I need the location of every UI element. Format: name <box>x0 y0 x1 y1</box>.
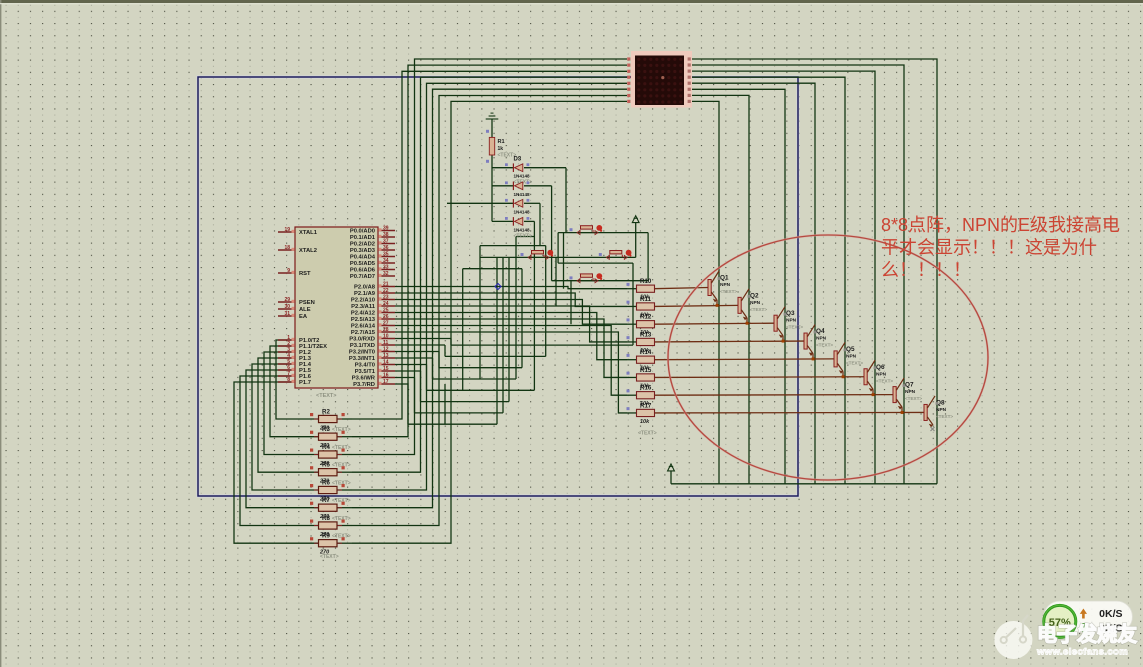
resistor R16 <box>627 385 656 408</box>
push button K3 <box>606 250 631 260</box>
svg-text:<TEXT>: <TEXT> <box>332 463 351 469</box>
svg-text:<TEXT>: <TEXT> <box>316 393 336 399</box>
wire <box>746 318 748 323</box>
resistor R14 <box>627 349 656 372</box>
svg-text:P0.4/AD4: P0.4/AD4 <box>350 255 376 261</box>
svg-text:0K/S: 0K/S <box>1099 608 1122 620</box>
svg-text:35: 35 <box>383 251 389 257</box>
svg-text:<TEXT>: <TEXT> <box>905 396 922 401</box>
svg-text:P2.4/A12: P2.4/A12 <box>351 311 375 317</box>
wire <box>627 305 636 307</box>
svg-text:R10: R10 <box>640 278 652 285</box>
resistor R12 <box>627 314 656 337</box>
svg-text:P2.3/A11: P2.3/A11 <box>351 304 376 310</box>
wire <box>352 83 627 490</box>
wire <box>692 71 875 484</box>
resistor R15 <box>627 367 656 390</box>
svg-text:R13: R13 <box>640 331 652 338</box>
svg-text:NPN: NPN <box>905 389 916 395</box>
wire <box>421 401 510 403</box>
svg-text:Q4: Q4 <box>816 328 825 335</box>
node <box>931 427 935 431</box>
wire <box>654 340 804 343</box>
svg-text:P3.6/WR: P3.6/WR <box>352 376 376 382</box>
watermark and net speed widget <box>994 615 1032 659</box>
svg-text:XTAL1: XTAL1 <box>299 230 318 236</box>
svg-text:11: 11 <box>383 340 389 346</box>
svg-text:8*8点阵，NPN的E级我接高电: 8*8点阵，NPN的E级我接高电 <box>881 215 1120 235</box>
svg-text:32: 32 <box>383 271 389 277</box>
svg-text:P1.7: P1.7 <box>299 380 311 386</box>
wire <box>521 269 523 368</box>
wire <box>300 507 319 509</box>
wire <box>551 186 553 281</box>
wire <box>558 262 633 264</box>
svg-text:R15: R15 <box>640 367 652 374</box>
wire <box>782 336 784 341</box>
svg-text:PSEN: PSEN <box>299 300 315 306</box>
wire <box>407 384 409 424</box>
wire <box>627 412 636 414</box>
svg-text:R3: R3 <box>322 426 330 433</box>
diode D5 1N4148 <box>505 199 530 214</box>
resistor R4 <box>310 444 351 467</box>
wire <box>524 202 540 204</box>
wire <box>395 293 627 306</box>
wire <box>352 101 627 543</box>
transistor Q3 NPN <box>774 307 803 343</box>
svg-text:Q3: Q3 <box>786 310 795 317</box>
wire <box>563 233 565 289</box>
LED matrix 8x8 display <box>627 51 692 108</box>
wire <box>872 389 874 394</box>
wire <box>337 471 352 473</box>
wire <box>427 389 535 391</box>
svg-text:P0.7/AD7: P0.7/AD7 <box>350 274 375 280</box>
wire <box>337 507 352 509</box>
svg-text:R5: R5 <box>322 462 330 469</box>
svg-text:14: 14 <box>383 359 389 365</box>
wire <box>515 237 517 380</box>
svg-text:<TEXT>: <TEXT> <box>320 554 339 560</box>
svg-text:<TEXT>: <TEXT> <box>846 360 863 365</box>
wire <box>570 281 572 325</box>
wire <box>558 232 648 234</box>
transistor Q7 NPN <box>893 378 922 414</box>
wire <box>300 542 319 544</box>
svg-text:1N4148: 1N4148 <box>514 192 531 197</box>
wire <box>491 119 493 137</box>
node <box>570 276 573 279</box>
svg-text:P3.4/T0: P3.4/T0 <box>355 363 375 369</box>
svg-text:P3.1/TXD: P3.1/TXD <box>350 343 375 349</box>
svg-text:10k: 10k <box>640 419 650 425</box>
svg-text:<TEXT>: <TEXT> <box>750 307 767 312</box>
svg-text:<TEXT>: <TEXT> <box>786 325 803 330</box>
resistor R3 <box>310 426 351 449</box>
svg-text:Q7: Q7 <box>905 382 914 389</box>
svg-text:R17: R17 <box>640 402 652 409</box>
wire <box>492 220 513 222</box>
svg-text:1N4148: 1N4148 <box>514 227 531 232</box>
annotation red ellipse and note <box>668 235 988 480</box>
wire <box>337 436 352 438</box>
wire <box>352 89 627 508</box>
resistor R9 <box>310 533 351 560</box>
svg-text:<TEXT>: <TEXT> <box>332 534 351 540</box>
transistor Q5 NPN <box>834 342 863 378</box>
wire <box>565 168 567 233</box>
svg-text:R12: R12 <box>640 314 652 321</box>
wire <box>627 394 636 396</box>
svg-text:27: 27 <box>383 320 389 326</box>
wire <box>502 257 504 413</box>
svg-text:R14: R14 <box>640 349 652 356</box>
svg-text:39: 39 <box>383 225 389 231</box>
wire <box>539 203 541 245</box>
svg-text:<TEXT>: <TEXT> <box>332 445 351 451</box>
svg-text:NPN: NPN <box>936 407 947 413</box>
wire <box>246 370 300 508</box>
node <box>570 228 573 231</box>
svg-text:RST: RST <box>299 271 311 277</box>
svg-text:24: 24 <box>383 301 389 307</box>
svg-text:22: 22 <box>383 288 389 294</box>
svg-text:P3.3/INT1: P3.3/INT1 <box>349 356 376 362</box>
wire <box>524 185 552 187</box>
resistor R2 <box>310 409 345 432</box>
svg-text:19: 19 <box>284 227 290 233</box>
wire <box>420 371 422 402</box>
wire <box>395 344 445 346</box>
wire <box>352 77 627 472</box>
wire <box>337 489 352 491</box>
svg-text:NPN: NPN <box>846 353 857 359</box>
svg-text:Q1: Q1 <box>720 275 729 282</box>
wire <box>276 340 300 419</box>
wire <box>337 542 352 544</box>
wire <box>492 185 513 187</box>
wire <box>463 268 522 270</box>
svg-text:<TEXT>: <TEXT> <box>332 481 351 487</box>
transistor Q6 NPN <box>864 360 893 396</box>
wire <box>258 358 300 472</box>
svg-text:P2.6/A14: P2.6/A14 <box>351 324 376 330</box>
svg-text:P2.7/A15: P2.7/A15 <box>351 330 376 336</box>
wire <box>438 352 440 368</box>
svg-text:13: 13 <box>383 353 389 359</box>
wire <box>414 378 416 413</box>
svg-text:Q6: Q6 <box>876 364 885 371</box>
wire <box>692 95 749 483</box>
wire <box>479 246 481 379</box>
wire <box>300 471 319 473</box>
wire <box>352 96 627 526</box>
resistor R11 <box>627 296 656 319</box>
svg-text:37: 37 <box>383 238 389 244</box>
wire <box>395 357 433 359</box>
wire <box>627 341 636 343</box>
wire <box>300 436 319 438</box>
svg-text:P0.1/AD1: P0.1/AD1 <box>350 235 376 241</box>
svg-text:17: 17 <box>383 379 389 385</box>
wire <box>444 345 446 356</box>
svg-text:Q2: Q2 <box>750 292 759 299</box>
wire <box>395 351 439 353</box>
wire <box>395 287 627 289</box>
svg-text:<TEXT>: <TEXT> <box>816 343 833 348</box>
wire <box>462 269 464 391</box>
svg-text:R9: R9 <box>322 533 330 540</box>
wire <box>337 454 352 456</box>
wire <box>395 319 627 377</box>
wire <box>439 367 522 369</box>
wire <box>692 101 719 483</box>
svg-text:<TEXT>: <TEXT> <box>720 289 737 294</box>
svg-text:P3.5/T1: P3.5/T1 <box>355 369 376 375</box>
svg-text:1N4148: 1N4148 <box>514 174 531 179</box>
svg-text:R1: R1 <box>498 139 505 145</box>
resistor R10 <box>627 278 656 301</box>
resistor R8 <box>310 515 351 538</box>
wire <box>395 300 627 325</box>
svg-text:23: 23 <box>383 294 389 300</box>
wire <box>491 155 493 221</box>
svg-text:P0.6/AD6: P0.6/AD6 <box>350 268 376 274</box>
svg-text:<TEXT>: <TEXT> <box>936 414 953 419</box>
svg-text:30: 30 <box>284 304 290 310</box>
wire <box>352 65 627 437</box>
wire <box>692 89 785 484</box>
diode D6 1N4148 <box>505 217 532 239</box>
wire <box>654 394 893 397</box>
svg-text:<TEXT>: <TEXT> <box>332 498 351 504</box>
svg-text:www.elecfans.com: www.elecfans.com <box>1036 647 1128 658</box>
svg-text:<TEXT>: <TEXT> <box>332 427 351 433</box>
svg-text:NPN: NPN <box>750 300 761 306</box>
svg-text:P3.2/INT0: P3.2/INT0 <box>349 350 375 356</box>
wire <box>300 454 319 456</box>
wire <box>240 376 300 526</box>
svg-text:XTAL2: XTAL2 <box>299 248 317 254</box>
wire <box>480 245 546 247</box>
node <box>495 284 501 290</box>
wire <box>627 288 636 290</box>
wire <box>552 280 649 282</box>
wire <box>533 221 535 390</box>
svg-text:21: 21 <box>383 281 389 287</box>
wire <box>395 383 408 385</box>
wire <box>337 525 352 527</box>
wire <box>654 288 708 289</box>
svg-text:R6: R6 <box>322 480 330 487</box>
wire <box>432 358 434 379</box>
svg-text:EA: EA <box>299 314 308 320</box>
svg-text:P2.1/A9: P2.1/A9 <box>354 291 376 297</box>
svg-text:P3.0/RXD: P3.0/RXD <box>349 337 375 343</box>
svg-text:34: 34 <box>383 258 389 264</box>
wire <box>300 489 319 491</box>
svg-text:R4: R4 <box>322 444 330 451</box>
svg-text:38: 38 <box>383 232 389 238</box>
wire <box>395 306 627 342</box>
svg-text:电子发烧友: 电子发烧友 <box>1037 622 1137 646</box>
power terminal <box>668 464 675 471</box>
wire <box>252 364 300 490</box>
wire <box>524 220 534 222</box>
svg-text:12: 12 <box>383 346 389 352</box>
transistor Q4 NPN <box>804 325 833 361</box>
svg-text:P0.0/AD0: P0.0/AD0 <box>350 229 375 235</box>
resistor R17 <box>627 402 657 436</box>
wire <box>492 167 513 169</box>
node <box>521 253 524 256</box>
resistor R7 <box>310 497 351 520</box>
wire <box>671 483 937 485</box>
svg-text:18: 18 <box>284 245 290 251</box>
svg-text:<TEXT>: <TEXT> <box>514 233 533 239</box>
svg-text:33: 33 <box>383 264 389 270</box>
push button K4 <box>577 273 602 283</box>
diode D3 1N4148 <box>505 157 532 186</box>
wire <box>395 377 415 379</box>
wire <box>692 83 815 484</box>
svg-text:25: 25 <box>383 307 389 313</box>
svg-text:R2: R2 <box>322 409 330 416</box>
svg-text:1k: 1k <box>498 146 504 152</box>
node <box>599 253 602 256</box>
svg-text:29: 29 <box>284 297 290 303</box>
wire <box>654 358 834 361</box>
svg-text:36: 36 <box>383 245 389 251</box>
wire <box>337 418 352 420</box>
svg-text:31: 31 <box>284 311 290 317</box>
wire <box>842 371 844 376</box>
wire <box>670 471 672 484</box>
svg-text:NPN: NPN <box>720 282 731 288</box>
wire <box>654 305 738 306</box>
svg-text:<TEXT>: <TEXT> <box>876 378 893 383</box>
transistor Q1 NPN <box>708 271 737 307</box>
wire <box>426 365 428 391</box>
wire <box>545 246 547 357</box>
wire <box>654 411 924 414</box>
wire <box>450 339 452 346</box>
svg-text:<TEXT>: <TEXT> <box>638 431 657 437</box>
wire <box>395 313 627 360</box>
svg-text:ALE: ALE <box>299 307 311 313</box>
svg-text:P2.5/A13: P2.5/A13 <box>351 317 376 323</box>
svg-text:R7: R7 <box>322 497 330 504</box>
wire <box>352 59 627 455</box>
resistor R13 <box>627 331 656 354</box>
resistor R6 <box>310 480 351 503</box>
push button K2 <box>528 250 553 260</box>
wire <box>654 323 774 324</box>
push button K1 <box>577 225 602 235</box>
wire <box>654 376 864 379</box>
svg-text:16: 16 <box>383 372 389 378</box>
wire <box>451 344 633 346</box>
svg-text:NPN: NPN <box>876 371 887 377</box>
wire <box>395 332 627 413</box>
wire <box>901 407 903 412</box>
wire <box>395 338 451 340</box>
svg-text:P2.0/A8: P2.0/A8 <box>354 285 376 291</box>
wire <box>627 359 636 361</box>
svg-text:<TEXT>: <TEXT> <box>332 516 351 522</box>
wire <box>692 59 937 484</box>
wire <box>524 167 566 169</box>
wire <box>445 355 546 357</box>
svg-text:8: 8 <box>287 377 290 383</box>
svg-text:1N4148: 1N4148 <box>514 209 531 214</box>
wire <box>692 65 904 484</box>
wire <box>692 77 845 484</box>
svg-text:R16: R16 <box>640 385 652 392</box>
wire <box>264 352 300 455</box>
svg-text:R11: R11 <box>640 296 652 303</box>
svg-text:28: 28 <box>383 327 389 333</box>
svg-text:P2.2/A10: P2.2/A10 <box>351 298 375 304</box>
wire <box>516 236 534 238</box>
svg-text:P0.2/AD2: P0.2/AD2 <box>350 242 375 248</box>
svg-text:NPN: NPN <box>816 336 827 342</box>
wire <box>395 370 421 372</box>
transistor Q2 NPN <box>738 289 767 325</box>
wire <box>300 418 319 420</box>
svg-text:平才会显示！！！这是为什: 平才会显示！！！这是为什 <box>881 238 1097 258</box>
wire <box>557 233 559 264</box>
wire <box>395 364 427 366</box>
wire <box>408 423 497 425</box>
wire <box>480 256 636 258</box>
wire <box>395 326 627 396</box>
svg-text:P0.3/AD3: P0.3/AD3 <box>350 248 376 254</box>
power terminal <box>632 216 639 223</box>
svg-text:R8: R8 <box>322 515 330 522</box>
wire <box>447 202 513 204</box>
schematic sheet border <box>198 77 798 496</box>
wire <box>635 223 637 258</box>
svg-text:NPN: NPN <box>786 318 797 324</box>
wire <box>415 412 504 414</box>
wire <box>234 382 300 543</box>
resistor R5 <box>310 462 351 485</box>
wire <box>444 384 446 424</box>
resistor R1 <box>486 130 516 163</box>
IC U1 AT89C51 microcontroller <box>278 225 395 399</box>
svg-text:P3.7/RD: P3.7/RD <box>353 382 375 388</box>
svg-text:10: 10 <box>383 333 389 339</box>
wire <box>433 378 517 380</box>
wire <box>555 257 557 306</box>
svg-text:D3: D3 <box>514 157 522 163</box>
wire <box>300 525 319 527</box>
transistor Q8 NPN <box>924 396 953 427</box>
svg-text:15: 15 <box>383 366 389 372</box>
wire <box>270 346 300 437</box>
svg-text:26: 26 <box>383 314 389 320</box>
svg-text:么！！！！: 么！！！！ <box>881 260 971 280</box>
wire <box>647 233 649 281</box>
wire <box>627 323 636 325</box>
wire <box>508 257 510 401</box>
svg-text:P0.5/AD5: P0.5/AD5 <box>350 261 376 267</box>
wire <box>812 354 814 359</box>
wire <box>716 300 718 305</box>
wire <box>632 263 634 345</box>
